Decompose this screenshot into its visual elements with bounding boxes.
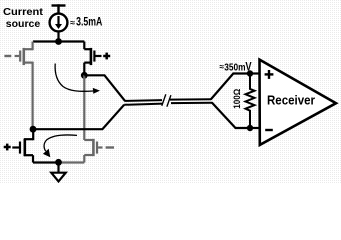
junction dot right rail xyxy=(81,72,88,79)
label minus gate M1 xyxy=(4,55,11,57)
wire pair top line xyxy=(125,99,163,102)
junction dot ground xyxy=(55,159,62,166)
label plus gate M2 xyxy=(103,53,110,60)
wire bottom differential line xyxy=(33,105,124,130)
wire bottom rail black xyxy=(33,161,59,163)
junction dot receiver plus xyxy=(247,70,253,76)
background dot grid xyxy=(0,0,341,184)
op-amp U1 receiver triangle xyxy=(260,60,337,145)
svg-text:350m: 350m xyxy=(224,61,245,73)
wire top rail xyxy=(33,40,84,42)
svg-text:Current: Current xyxy=(3,6,44,18)
current flow arrow lower xyxy=(43,135,77,157)
svg-text:≈: ≈ xyxy=(70,18,75,28)
wire gray left rail xyxy=(31,62,33,130)
wire to receiver plus input xyxy=(211,74,250,100)
transistor M3 (bottom-left NMOS, active black) xyxy=(12,129,33,162)
transistor M1 (top-left PMOS, inactive gray) xyxy=(15,42,33,66)
wire bottom rail gray xyxy=(59,161,85,163)
resistor R1 100ohm xyxy=(246,74,255,129)
wire minus node to receiver xyxy=(250,127,260,129)
label plus input xyxy=(265,70,274,79)
wire gray right rail xyxy=(83,75,85,140)
ground xyxy=(57,162,59,172)
svg-text:100Ω: 100Ω xyxy=(232,89,242,109)
current flow arrow upper xyxy=(55,64,100,94)
svg-text:Receiver: Receiver xyxy=(267,92,315,107)
wire pair bottom line xyxy=(124,104,163,105)
svg-text:3.5mA: 3.5mA xyxy=(76,17,102,29)
wire current source to top rail xyxy=(57,32,59,42)
wire top differential line xyxy=(84,75,125,101)
transistor M2 (top-right PMOS, active black) xyxy=(84,42,101,76)
current source I1 arrow xyxy=(55,16,62,29)
label plus gate M3 xyxy=(4,144,11,151)
label minus gate M4 xyxy=(106,146,114,148)
current source I1 circle xyxy=(50,14,68,32)
transistor M4 (bottom-right NMOS, inactive gray) xyxy=(84,139,102,163)
wire to receiver minus input xyxy=(212,102,250,128)
svg-text:source: source xyxy=(6,18,41,30)
wire plus node to receiver xyxy=(250,72,260,74)
label minus input xyxy=(265,129,273,131)
line break marks xyxy=(162,94,166,106)
junction dot receiver minus xyxy=(247,125,253,131)
junction dot left rail xyxy=(30,126,37,133)
node VDD T-bar xyxy=(52,4,66,13)
junction dot under current source xyxy=(55,38,62,45)
